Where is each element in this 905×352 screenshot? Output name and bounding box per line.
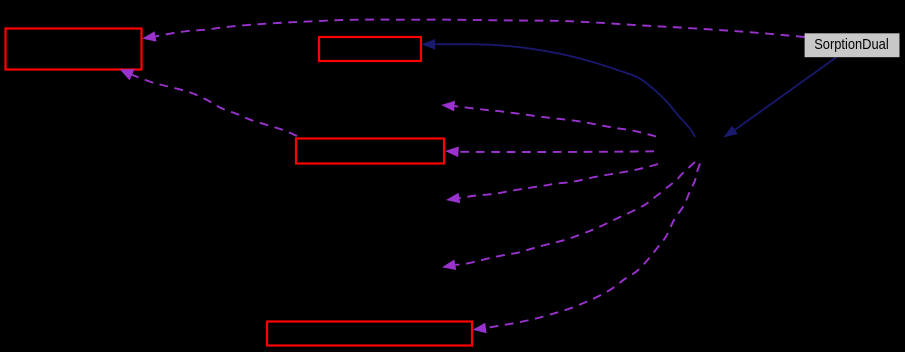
node box C (truncated class, middle) (296, 139, 444, 164)
inheritance edge from SorptionDual to center node (723, 58, 836, 138)
usage edge from center node to box C (445, 147, 654, 158)
node box B (truncated class, top middle) (319, 37, 421, 61)
svg-text:SorptionDual: SorptionDual (814, 36, 889, 53)
node SorptionDual (current class, gray) (805, 33, 900, 57)
node box A (truncated class, upper left) (6, 29, 142, 70)
inheritance edge from center node to box B (421, 39, 695, 137)
usage edge from center node to box D (473, 164, 701, 334)
usage edge from SorptionDual to box A (142, 20, 804, 42)
node box D (truncated class, bottom) (267, 322, 472, 346)
usage edge from center node to hidden node 1 (441, 101, 656, 137)
usage edge from center node to hidden node 3 (442, 162, 695, 270)
usage edge from box C to box A (120, 69, 297, 136)
usage edge from center node to hidden node 2 (446, 164, 658, 203)
